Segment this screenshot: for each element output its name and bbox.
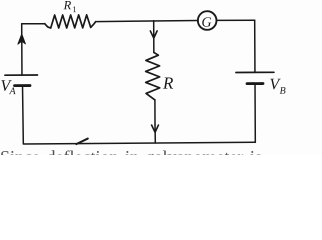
battery VB short plate [247,82,263,85]
wire top-right segment [216,19,254,21]
wire right vertical upper [254,20,256,72]
svg-text:1: 1 [72,4,76,14]
wire middle vertical to bottom wire [154,125,156,143]
resistor R [146,52,160,100]
svg-text:R: R [63,0,72,12]
wire top-middle segment [96,20,198,21]
current arrow middle lower (pointing down) [152,125,159,132]
wire bottom segment [24,142,255,144]
svg-text:A: A [9,86,17,97]
svg-text:R: R [162,74,174,93]
wire middle vertical below resistor [154,100,156,125]
current arrow on bottom wire (half arrowhead pointing left) [76,139,88,145]
svg-text:B: B [280,86,286,97]
current arrow middle upper (pointing down) [150,31,157,38]
node junction top middle [153,21,155,31]
battery VB long plate [236,71,274,73]
svg-text:G: G [201,16,211,31]
wire middle vertical to resistor [153,31,155,52]
current arrow on left wire (filled, pointing up) [18,34,26,44]
battery VA short plate [15,84,30,87]
resistor R1 [45,15,96,28]
wire right vertical lower [254,84,256,143]
wire left vertical lower [22,86,25,144]
wire left vertical upper [21,24,23,75]
wire top-left segment [22,23,45,25]
battery VA long plate [5,74,37,76]
svg-text:Since deflection in galvanomet: Since deflection in galvanometer is [0,147,262,155]
galvanometer G [198,11,217,30]
